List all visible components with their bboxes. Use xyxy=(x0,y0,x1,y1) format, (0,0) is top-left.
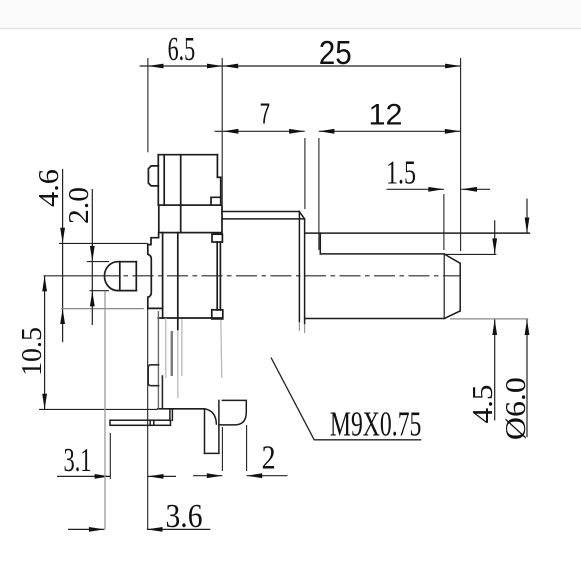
dim 7 ext right xyxy=(304,138,306,209)
dim 3.1/3.6 ext shared xyxy=(147,308,149,529)
foot bar bend to body xyxy=(169,409,171,421)
bump inner line xyxy=(119,262,121,291)
dim 7 line xyxy=(215,129,305,134)
left foot bar xyxy=(110,409,172,426)
shaft tip face xyxy=(459,263,461,311)
bushing front face line 2 xyxy=(304,219,306,324)
left lower tab xyxy=(148,365,162,409)
svg-text:10.5: 10.5 xyxy=(17,327,48,376)
upper block inner line 2 xyxy=(180,155,182,233)
body mid section xyxy=(148,233,223,409)
shaft top / diameter extension line xyxy=(305,232,530,234)
svg-text:Ø6.0: Ø6.0 xyxy=(501,377,532,440)
flange xyxy=(159,205,222,233)
upper block inner line 1 xyxy=(163,155,165,205)
upper block left edge xyxy=(157,155,159,205)
dim 2 lines xyxy=(193,473,288,478)
dim 2 ext right xyxy=(246,425,248,471)
centerline xyxy=(43,275,461,277)
svg-text:2.0: 2.0 xyxy=(64,187,95,224)
svg-text:1.5: 1.5 xyxy=(386,154,416,191)
right lower tab xyxy=(212,310,223,319)
svg-text:2: 2 xyxy=(262,439,276,476)
upper block right edge lower xyxy=(220,177,222,205)
dim 4.5 line xyxy=(492,220,497,420)
dim 2 ext left xyxy=(221,427,223,471)
bushing chamfer corner xyxy=(299,212,304,220)
body main inner vertical xyxy=(177,233,179,330)
dim 4.5 ext top xyxy=(445,253,497,255)
body bottom edge xyxy=(158,408,205,410)
body right edge line 2 xyxy=(219,242,221,310)
dim 3.6 lines xyxy=(68,527,210,532)
upper block right notch xyxy=(211,197,221,205)
dim 10.5 ext bottom xyxy=(39,408,157,410)
right bracket foot xyxy=(219,400,246,425)
body left edge with bulge xyxy=(148,245,152,309)
svg-text:4.5: 4.5 xyxy=(468,385,499,424)
shaft bottom edge xyxy=(305,318,445,320)
neck lower line xyxy=(222,218,304,220)
svg-text:7: 7 xyxy=(260,99,271,131)
center pin xyxy=(205,400,219,453)
rear support bump xyxy=(104,262,136,291)
upper block right edge upper xyxy=(216,155,218,178)
dim 4.6 line xyxy=(60,169,65,342)
bump right end line xyxy=(135,262,137,291)
svg-text:12: 12 xyxy=(369,99,403,132)
dim 25 line xyxy=(223,64,461,69)
dim 12 ext left xyxy=(318,138,320,250)
neck top line xyxy=(222,211,299,213)
scan artifact band xyxy=(0,0,581,29)
svg-text:M9X0.75: M9X0.75 xyxy=(330,405,422,444)
right upper tab xyxy=(212,234,222,242)
dim 3.1 lines xyxy=(57,474,176,479)
shaft tip bottom chamfer xyxy=(445,311,461,319)
dim 25/12 ext right xyxy=(460,58,462,251)
interior dark grey line xyxy=(171,331,173,376)
neck lines to bushing xyxy=(222,212,305,325)
dim 3.1 ext left xyxy=(109,433,111,479)
dim 2.0 ext bottom xyxy=(90,290,109,292)
svg-text:4.6: 4.6 xyxy=(34,169,65,207)
dim 6.5 line xyxy=(140,64,223,69)
shaft flat line xyxy=(320,253,444,255)
body inner horizontal xyxy=(158,317,222,319)
dim 3.6 ext left grey xyxy=(104,291,106,529)
dim 6.5 ext left xyxy=(147,58,149,152)
dim 1.5 ext xyxy=(443,194,445,250)
body inner left wall xyxy=(162,233,164,318)
upper block top edge xyxy=(148,155,220,233)
dim 10.5 line xyxy=(42,276,47,410)
dim 12 line xyxy=(319,129,461,134)
shaft chamfer boundary line xyxy=(443,254,445,319)
body right edge line 1 xyxy=(216,242,218,310)
body left bottom step xyxy=(148,307,163,309)
shaft tip top chamfer xyxy=(444,254,460,263)
left step below flange xyxy=(148,233,159,245)
upper block right step xyxy=(217,176,220,178)
bushing front face line 1 xyxy=(298,212,300,323)
dim 2.0 line xyxy=(90,189,95,325)
dim 4.6 ext top xyxy=(59,242,148,244)
dim 6.5/25 ext shared xyxy=(221,58,223,204)
svg-text:6.5: 6.5 xyxy=(168,31,196,68)
shaft step xyxy=(319,233,321,254)
body left lower face grey xyxy=(157,311,159,409)
shaft bottom extension grey xyxy=(450,318,528,320)
dim 1.5 lines xyxy=(387,187,491,192)
svg-text:25: 25 xyxy=(319,34,352,71)
svg-text:3.1: 3.1 xyxy=(64,442,92,479)
upper block left tab xyxy=(148,166,158,186)
dim 4.6 ext bottom grey xyxy=(61,308,144,310)
dim dia 6.0 line xyxy=(525,199,530,437)
thread leader line xyxy=(271,358,421,440)
svg-text:3.6: 3.6 xyxy=(166,498,203,535)
bushing face fade-out xyxy=(299,322,304,333)
dim 2.0 ext top xyxy=(87,261,109,263)
faint interior lines xyxy=(166,318,222,398)
